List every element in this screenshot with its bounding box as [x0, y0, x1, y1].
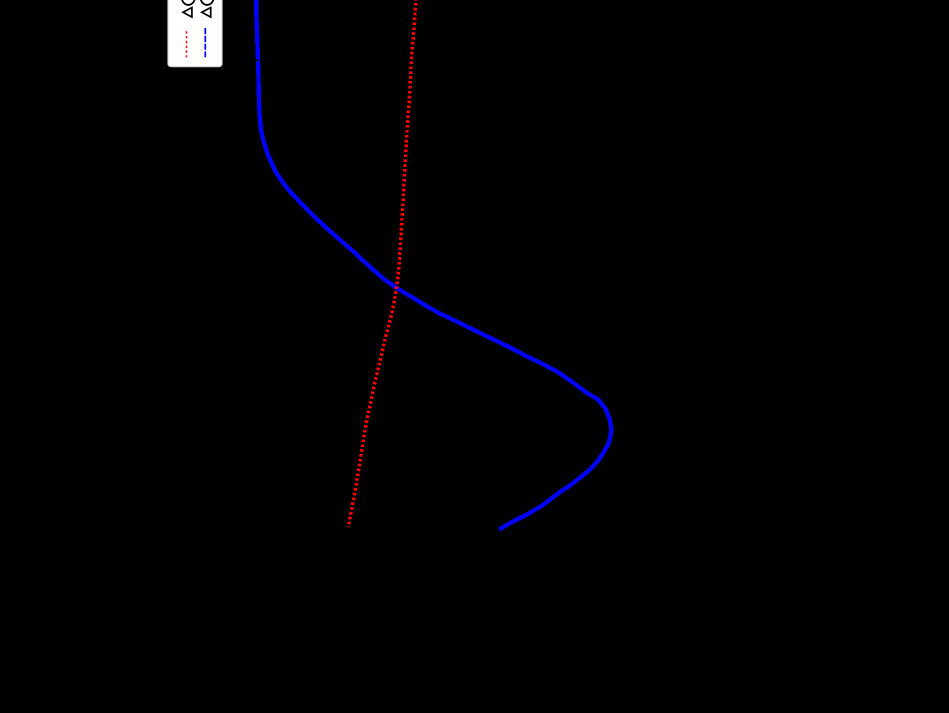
legend label 2: bottom sliver of rotated G: [201, 0, 214, 5]
legend box (cut off at top): [168, 0, 222, 67]
legend label 1: bottom sliver of rotated G: [182, 0, 195, 5]
red dotted curve: [348, 0, 416, 527]
legend label 2: rotated "ΔG" (delta triangle): [202, 8, 211, 18]
blue curve (solid sigmoid, rotated plot line): [256, 0, 611, 530]
legend label 1: rotated "ΔG" (delta triangle), mostly cut off above: [183, 8, 192, 18]
legend entry 1: red dotted sample (vertical after rotation): [186, 31, 188, 57]
tiny dash notch in blue line: [256, 60, 259, 62]
legend entry 2: blue dashed sample: [204, 28, 206, 57]
